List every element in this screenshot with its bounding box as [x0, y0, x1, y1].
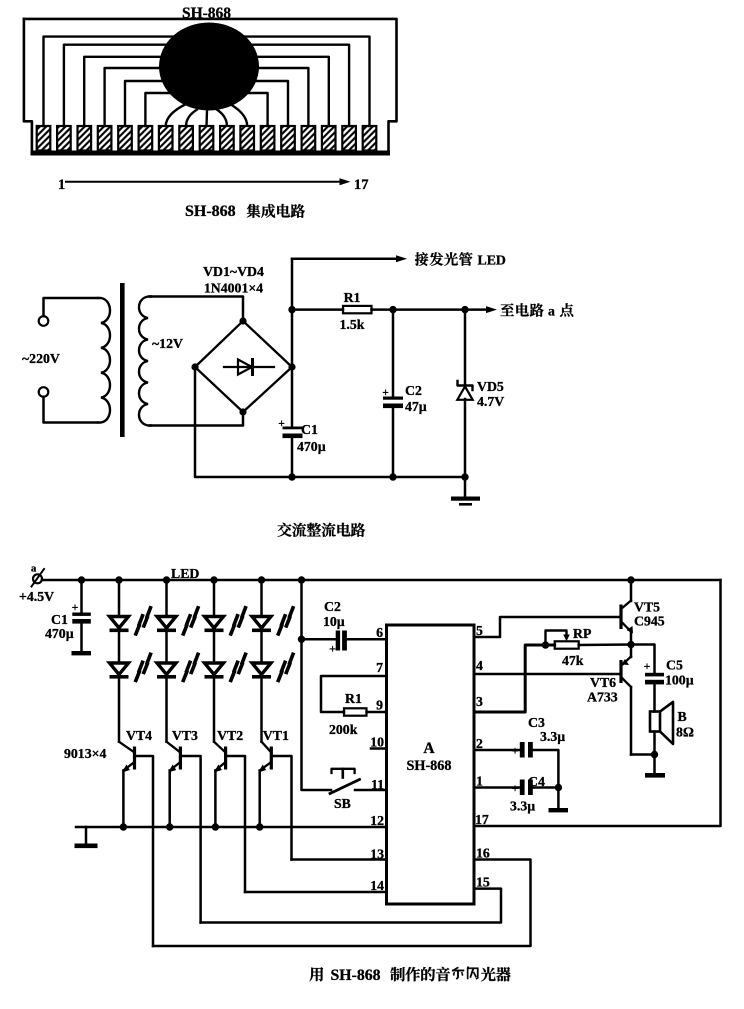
svg-text:10: 10 — [370, 735, 384, 750]
node C2 bottom — [389, 473, 396, 480]
wire LED column 2 — [165, 580, 168, 617]
capacitor C2 47u — [392, 310, 395, 398]
capacitor C5 100u — [645, 673, 664, 677]
svg-text:B: B — [678, 709, 687, 724]
svg-text:1N4001×4: 1N4001×4 — [204, 281, 263, 296]
svg-text:VT6: VT6 — [590, 675, 616, 690]
svg-text:9: 9 — [376, 698, 383, 713]
svg-text:+: + — [512, 744, 519, 758]
svg-text:SB: SB — [334, 796, 351, 811]
ground rectifier — [464, 477, 467, 497]
svg-text:R1: R1 — [345, 691, 362, 706]
node C1 bottom — [288, 473, 295, 480]
svg-text:a: a — [31, 564, 37, 575]
wire top supply rail — [42, 579, 721, 582]
wire base VT1 — [273, 756, 292, 860]
svg-text:+: + — [512, 781, 519, 795]
svg-text:~12V: ~12V — [152, 336, 183, 351]
wire pin13 from VT1 base — [292, 858, 387, 861]
transistor VT4 9013 — [118, 678, 121, 742]
svg-text:+: + — [72, 602, 79, 614]
svg-text:100µ: 100µ — [665, 673, 694, 688]
wire C2 branch vertical — [302, 580, 332, 790]
svg-text:470µ: 470µ — [297, 439, 326, 454]
node C2 branch / pin6 — [298, 636, 305, 643]
wire a-point rail left part — [292, 308, 343, 311]
wire pin15 wrap from VT3 base — [201, 889, 501, 923]
svg-text:3.3µ: 3.3µ — [510, 799, 535, 814]
svg-text:4.7V: 4.7V — [477, 394, 504, 409]
capacitor C2 10u — [302, 638, 336, 641]
svg-text:14: 14 — [370, 878, 384, 893]
svg-text:C945: C945 — [634, 614, 665, 629]
svg-text:C1: C1 — [51, 612, 68, 627]
svg-text:47µ: 47µ — [405, 399, 427, 414]
svg-text:13: 13 — [370, 847, 384, 862]
svg-text:C2: C2 — [405, 383, 422, 398]
ground C3 C4 — [557, 788, 560, 809]
wire pin1 to C4 — [474, 786, 520, 789]
svg-text:3: 3 — [476, 694, 483, 709]
wire pin10 stub — [371, 747, 387, 750]
LED D1a — [110, 606, 153, 637]
node VT5 collector top — [627, 576, 634, 583]
node VT6 collector / speaker — [631, 753, 655, 756]
svg-text:C2: C2 — [324, 599, 341, 614]
svg-text:17: 17 — [354, 177, 369, 193]
bond wires pins 7-11 — [166, 104, 186, 126]
wire LED column 4 — [260, 580, 263, 617]
speaker B 8ohm — [650, 712, 660, 732]
svg-text:+: + — [329, 642, 336, 656]
node bridge right — [288, 363, 295, 370]
capacitor C4 3.3u — [520, 780, 525, 796]
label jie fa guang guan LED — [415, 252, 428, 266]
wire pin17 to right rail — [474, 580, 721, 826]
transformer secondary winding — [139, 297, 152, 426]
wire LED column 1 — [118, 580, 121, 617]
node VD5 top junction — [461, 306, 468, 313]
node C3 C4 tie — [533, 786, 559, 789]
wire pin5 to VT5 base — [474, 617, 620, 637]
LED D4b — [252, 652, 295, 683]
svg-text:7: 7 — [376, 660, 383, 675]
svg-text:a: a — [548, 304, 555, 319]
svg-text:SH-868: SH-868 — [185, 203, 236, 220]
transistor VT2 9013 — [213, 678, 216, 742]
transistor VT3 9013 — [165, 678, 168, 742]
bridge rectifier VD1-VD4 diamond — [195, 321, 292, 412]
svg-text:VT3: VT3 — [172, 728, 198, 743]
svg-text:C1: C1 — [301, 422, 318, 437]
svg-text:4: 4 — [476, 658, 483, 673]
pushbutton SB — [332, 769, 355, 773]
wire bridge right node riser — [291, 259, 294, 367]
node bridge top — [239, 317, 246, 324]
wire a-point rail right part — [372, 308, 490, 311]
AC rectifier circuit — [22, 252, 573, 537]
wire base VT2 — [227, 756, 245, 892]
ground speaker — [645, 773, 665, 778]
node C1 top — [78, 576, 85, 583]
wire base VT3 — [182, 756, 201, 923]
node VT5 emitter / VT6 emitter — [627, 641, 634, 648]
package outline — [24, 19, 397, 152]
svg-text:16: 16 — [476, 846, 490, 861]
svg-text:C5: C5 — [666, 658, 683, 673]
node emitter VT2 on ground rail — [212, 823, 219, 830]
svg-text:11: 11 — [371, 777, 384, 792]
wire LED column 3 — [213, 580, 216, 617]
transistor VT1 9013 — [260, 678, 263, 742]
svg-text:1: 1 — [58, 177, 65, 193]
label zhi dian lu a dian — [501, 303, 514, 316]
node C2 branch top — [298, 576, 305, 583]
bridge inner diode symbol — [224, 366, 274, 368]
wire emitter node to C5 — [631, 645, 655, 674]
wire speaker to ground node — [653, 732, 656, 773]
svg-text:LED: LED — [478, 253, 506, 268]
svg-text:6: 6 — [376, 625, 383, 640]
terminal a with +4.5V — [33, 574, 42, 583]
resistor R1 1.5k — [343, 306, 372, 313]
svg-text:SH-868: SH-868 — [331, 967, 381, 984]
bond wires pins 12-17 — [240, 37, 370, 126]
svg-text:+: + — [644, 661, 651, 673]
svg-text:LED: LED — [171, 566, 199, 581]
svg-text:SH-868: SH-868 — [182, 5, 231, 22]
IC package SH-868 top view — [24, 5, 397, 220]
svg-text:12: 12 — [370, 813, 384, 828]
caption jiao liu zheng liu dian lu — [277, 523, 291, 537]
svg-text:A733: A733 — [587, 690, 618, 705]
wire base VT4 — [136, 756, 153, 946]
LED D2b — [157, 652, 200, 683]
chip die blob — [159, 23, 259, 111]
node RP wiper tie — [542, 641, 549, 648]
wire bottom rail rectifier — [195, 367, 465, 477]
wire primary top lead — [44, 298, 98, 316]
LED D3b — [205, 652, 248, 683]
svg-text:9013×4: 9013×4 — [64, 746, 106, 761]
svg-text:SH-868: SH-868 — [407, 758, 452, 774]
wire primary bottom lead — [44, 397, 98, 423]
LED D3a — [205, 606, 248, 637]
capacitor C3 3.3u — [520, 742, 525, 758]
terminal circles 220V — [39, 316, 49, 326]
svg-text:15: 15 — [476, 875, 490, 890]
resistor R1 200k — [344, 708, 367, 715]
package bottom bar — [31, 151, 391, 156]
svg-text:C3: C3 — [528, 715, 545, 730]
node LED col1 top — [115, 576, 122, 583]
svg-text:8Ω: 8Ω — [676, 725, 694, 740]
svg-text:~220V: ~220V — [22, 351, 60, 366]
svg-text:R1: R1 — [344, 290, 361, 305]
svg-text:RP: RP — [573, 626, 592, 641]
node emitter VT3 on ground rail — [166, 823, 173, 830]
node VD5 bottom / ground stub — [461, 473, 468, 480]
svg-text:+: + — [382, 387, 389, 399]
wire top rail to LED arrow — [292, 257, 399, 260]
LED D4a — [252, 606, 295, 637]
transistor VT5 C945 — [619, 605, 622, 630]
wire pin14 from VT2 base — [245, 891, 387, 894]
capacitor C1 470u flasher — [80, 580, 83, 615]
wire secondary bottom to bridge — [150, 412, 243, 426]
svg-text:47k: 47k — [562, 653, 584, 668]
svg-text:1.5k: 1.5k — [340, 317, 365, 332]
svg-text:A: A — [423, 740, 435, 757]
svg-text:3.3µ: 3.3µ — [540, 729, 565, 744]
bond wires pins 1-6 — [44, 37, 179, 126]
caption yong SH-868 music flasher — [309, 967, 323, 981]
transformer core — [120, 283, 125, 437]
svg-text:VT1: VT1 — [263, 728, 289, 743]
LED D2a — [157, 606, 200, 637]
zener diode VD5 4.7V — [464, 310, 467, 385]
IC A SH-868 — [387, 625, 475, 904]
node bridge bottom — [239, 408, 246, 415]
ground C1 — [72, 651, 92, 655]
wire pin7 loop — [321, 676, 387, 712]
potentiometer RP 47k — [555, 641, 579, 648]
wire C3 to tie node — [533, 750, 559, 788]
capacitor C1 470u — [291, 367, 294, 428]
svg-text:VD1~VD4: VD1~VD4 — [203, 264, 264, 279]
LED D1b — [110, 652, 153, 683]
wire secondary top to bridge — [150, 297, 243, 322]
17 hatched pins — [37, 126, 51, 151]
svg-text:470µ: 470µ — [45, 626, 74, 641]
wire RP to emitter node — [579, 643, 631, 646]
svg-text:VD5: VD5 — [477, 379, 504, 394]
node emitter VT1 on ground rail — [256, 823, 263, 830]
ground left flasher — [85, 827, 88, 844]
node LED col4 top — [258, 576, 265, 583]
svg-text:+: + — [278, 418, 285, 430]
wire R1 to pin9 — [367, 711, 387, 714]
wire pin4 to VT6 base — [474, 673, 620, 676]
svg-text:VT2: VT2 — [217, 728, 243, 743]
transformer T primary winding — [97, 298, 110, 423]
node C2 top junction — [389, 306, 396, 313]
svg-text:+4.5V: +4.5V — [19, 589, 54, 604]
wire pin3 riser — [474, 645, 555, 712]
svg-text:VT4: VT4 — [126, 728, 152, 743]
wire pin2 to C3 — [474, 749, 520, 752]
node emitter VT4 on ground rail — [120, 823, 127, 830]
node LED col2 top — [163, 576, 170, 583]
svg-text:10µ: 10µ — [323, 614, 345, 629]
music flasher circuit — [19, 564, 721, 985]
wire ground rail to pin 12 — [76, 826, 387, 829]
node LED col3 top — [210, 576, 217, 583]
svg-text:VT5: VT5 — [634, 600, 660, 615]
transistor VT6 A733 — [619, 660, 622, 683]
wire pin16 wrap from VT4 base — [153, 860, 531, 947]
node bridge left — [191, 363, 198, 370]
node rail/riser junction — [288, 306, 295, 313]
svg-text:200k: 200k — [329, 722, 358, 737]
